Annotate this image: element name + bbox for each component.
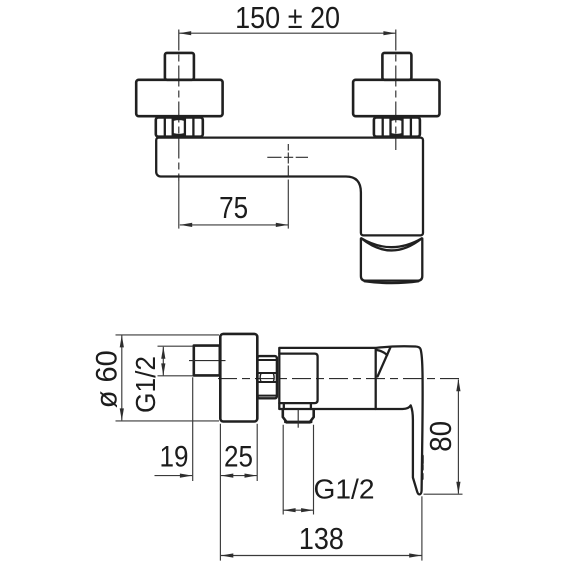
spout lower section sides and bottom	[361, 239, 422, 281]
collar under cover	[284, 403, 311, 409]
svg-text:19: 19	[160, 440, 189, 473]
80 dimension line	[457, 380, 459, 494]
spout bottom face arc	[365, 281, 419, 283]
extension line (19 left / stub bottom)	[192, 377, 194, 481]
left inlet pipe stub	[165, 53, 194, 80]
arrow left of 75 dim	[180, 223, 192, 227]
arrow up G1/2	[161, 346, 165, 358]
svg-text:G1/2: G1/2	[130, 356, 161, 413]
svg-text:G1/2: G1/2	[314, 474, 375, 505]
svg-text:80: 80	[423, 421, 458, 452]
outlet stub (G1/2 male)	[283, 409, 314, 422]
outlet G1/2 extension lines	[283, 425, 313, 515]
138 dimension line	[221, 555, 422, 557]
handle front slope (diagonal)	[378, 348, 391, 377]
left hex nut	[156, 117, 203, 136]
handle outline	[376, 346, 423, 494]
dimension 75 line	[180, 224, 288, 226]
right inlet pipe stub	[382, 53, 411, 80]
wall pipe stub (side)	[194, 346, 220, 376]
faucet body bar with spout (outline)	[156, 138, 423, 236]
dimension 150 ± 20 line	[179, 32, 396, 34]
80 dim bottom extension	[424, 493, 463, 495]
left escutcheon	[136, 80, 222, 116]
svg-text:ø 60: ø 60	[91, 350, 124, 408]
arrow right of 75 dim	[276, 223, 288, 227]
extension line long (25 left / 138 left)	[219, 424, 221, 561]
aerator smile arc upper	[361, 238, 421, 247]
outlet stub bottom edge	[285, 421, 311, 424]
arrow down dia60	[120, 408, 124, 420]
svg-text:138: 138	[299, 521, 344, 556]
main axis centerline	[218, 378, 461, 380]
extension line 75 right (body centre)	[287, 180, 289, 229]
G1/2 dim extension top	[158, 345, 194, 347]
right hex nut	[374, 117, 420, 136]
arrows 25	[221, 474, 233, 478]
arrow up dia60	[120, 335, 124, 347]
handle dome arc	[377, 350, 388, 355]
stub axis line	[189, 360, 226, 362]
center mark cross on body	[267, 144, 308, 177]
G1/2 dimension line (vertical)	[162, 347, 164, 376]
arrows 80	[456, 379, 460, 391]
dia60 dimension line	[121, 335, 123, 420]
arrows 138	[221, 553, 233, 557]
dimension 25 line	[221, 475, 257, 477]
svg-text:75: 75	[219, 190, 248, 225]
aerator smile arc lower	[361, 238, 421, 250]
centerline left inlet	[178, 30, 180, 182]
dimension 19 line	[155, 475, 193, 477]
extension line (25 right)	[256, 424, 258, 481]
arrow left of 150 dim	[179, 31, 191, 35]
arrows outlet G1/2	[283, 508, 295, 512]
handle edge dashes	[421, 456, 424, 479]
arrow down G1/2	[161, 363, 165, 375]
dia60 extension bottom	[116, 420, 220, 422]
connection nut (side)	[257, 356, 277, 398]
svg-text:25: 25	[224, 440, 253, 473]
cartridge cover (inner rounded)	[279, 354, 317, 404]
svg-text:150 ± 20: 150 ± 20	[235, 0, 340, 35]
wall escutcheon (side)	[220, 334, 257, 422]
arrow 19	[180, 474, 192, 478]
dia60 extension top	[116, 334, 220, 336]
centerline right inlet	[395, 30, 397, 151]
right escutcheon	[353, 80, 439, 116]
G1/2 dim extension bottom	[158, 375, 194, 377]
arrow right of 150 dim	[383, 31, 395, 35]
outlet axis tick	[297, 410, 299, 428]
mixer body (side, outer)	[279, 348, 375, 409]
outlet G1/2 dimension line	[283, 509, 313, 511]
138 right extension	[421, 496, 423, 560]
